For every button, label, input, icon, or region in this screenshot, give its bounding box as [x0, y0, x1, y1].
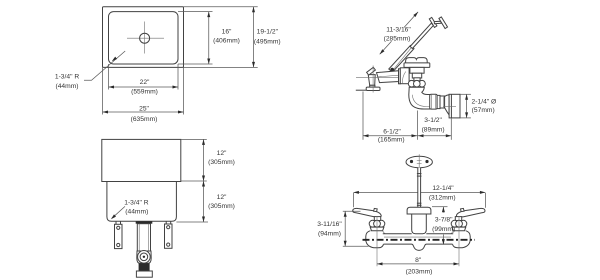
svg-text:(285mm): (285mm): [384, 36, 411, 43]
svg-text:(406mm): (406mm): [213, 38, 240, 45]
svg-text:(495mm): (495mm): [254, 38, 281, 45]
19-1/2 dimension line: [253, 7, 255, 68]
8 inch dim line: [377, 263, 459, 265]
faucet side: wall flange: [449, 94, 460, 118]
svg-text:16": 16": [222, 29, 232, 36]
svg-text:8": 8": [415, 257, 422, 264]
radius leader line plan: [84, 51, 125, 80]
faucet side: coupling balls: [408, 80, 415, 87]
16 inch dimension line: [208, 12, 210, 64]
left leg tab: [115, 221, 117, 224]
faucet front: right neck: [452, 227, 466, 231]
faucet front: inlet centerline dark dashes: [363, 239, 476, 241]
faucet front: right bell: [453, 231, 471, 248]
12 inch dim line lower: [203, 181, 205, 222]
16 inch extension lines: [178, 11, 213, 13]
drain pipe: [137, 224, 150, 251]
6-1/2 and 3-1/2 extension lines: [362, 92, 364, 140]
svg-text:(44mm): (44mm): [125, 209, 148, 216]
faucet side: step piece: [440, 96, 445, 108]
3-11/16 dim line: [344, 211, 346, 246]
3-7/8 dim line: [442, 207, 444, 213]
faucet front: left bell: [366, 231, 384, 248]
svg-text:(305mm): (305mm): [208, 203, 235, 210]
svg-text:(635mm): (635mm): [131, 116, 158, 123]
svg-text:(203mm): (203mm): [406, 268, 433, 275]
25 inch dimension line: [103, 111, 184, 113]
svg-text:(305mm): (305mm): [208, 159, 235, 166]
faucet side: spray head neck: [370, 85, 375, 87]
faucet side: knob bar 1: [429, 17, 437, 27]
right leg tab: [165, 221, 167, 224]
faucet side: body left block: [400, 68, 409, 84]
svg-text:(559mm): (559mm): [131, 88, 158, 95]
faucet front: right handle nub: [461, 208, 465, 211]
faucet front: oval handle: [406, 156, 432, 167]
sink plan view bowl: [109, 12, 179, 64]
faucet side: spray head body: [368, 75, 375, 86]
12-1/4 extension lines: [352, 193, 354, 207]
faucet front: bracket mid line: [384, 236, 451, 238]
3-1/2 dim line: [418, 135, 452, 137]
faucet front: left neck: [370, 227, 384, 231]
faucet side: body square: [412, 73, 421, 78]
trap circles: [138, 250, 151, 263]
faucet front: center bonnet cap: [407, 207, 431, 214]
svg-text:6-1/2": 6-1/2": [383, 128, 401, 135]
faucet side: body flange: [404, 63, 430, 68]
drain lower black fitting: [139, 263, 150, 271]
svg-text:25": 25": [139, 106, 149, 113]
right leg: [165, 224, 173, 248]
faucet side: 11-3/16 dim line: [380, 41, 392, 54]
faucet side: pail hook: [367, 67, 376, 75]
faucet side: bell and elbow: [409, 87, 430, 109]
svg-text:19-1/2": 19-1/2": [257, 29, 279, 36]
drain hole circle: [140, 33, 150, 43]
faucet side: body neck: [410, 67, 424, 73]
faucet side: knob bar 2: [439, 17, 448, 29]
spray head base tick: [356, 89, 366, 91]
faucet front: right bonnet balls: [460, 220, 467, 227]
faucet side: spout joint ring: [399, 69, 401, 84]
svg-text:(89mm): (89mm): [422, 126, 445, 133]
faucet side: handle pivot: [390, 68, 394, 72]
faucet side: square-to-balls connector: [414, 78, 420, 81]
22 inch extension lines: [108, 64, 110, 90]
25 inch extension lines: [102, 67, 104, 114]
drain crosshair horizontal: [127, 37, 164, 39]
faucet side: knob stem: [434, 21, 441, 24]
2-1/4 dim line: [466, 94, 468, 118]
12 inch dim line upper: [203, 139, 205, 181]
faucet front: left handle nub: [374, 208, 378, 211]
svg-text:1-3/4" R: 1-3/4" R: [55, 74, 79, 81]
faucet front: left handle blade: [353, 208, 381, 217]
svg-text:(99mm): (99mm): [432, 226, 455, 233]
faucet side: body cap: [406, 58, 428, 63]
svg-text:12-1/4": 12-1/4": [432, 185, 454, 192]
svg-text:(94mm): (94mm): [318, 231, 341, 238]
svg-text:3-7/8": 3-7/8": [435, 216, 453, 223]
19-1/2 extension lines: [184, 6, 258, 8]
svg-text:(312mm): (312mm): [429, 195, 456, 202]
faucet front: center body: [412, 214, 427, 234]
svg-text:3-1/2": 3-1/2": [424, 117, 442, 124]
drain bottom cap: [136, 271, 152, 277]
3-11/16 extension lines: [343, 210, 361, 212]
faucet side: handle lower shaft: [389, 45, 414, 72]
radius leader front view: [112, 206, 125, 218]
faucet side: flat piece: [437, 95, 440, 108]
6-1/2 dim line: [363, 135, 418, 137]
faucet side: handle upper shaft: [410, 23, 433, 48]
2-1/4 extension lines: [460, 93, 471, 95]
left leg: [115, 224, 123, 248]
faucet front: bridge bottom and center bump: [384, 244, 453, 250]
sink front view bowl: [107, 182, 176, 222]
drain gasket black band: [136, 221, 153, 223]
sink front view cabinet: [102, 139, 181, 181]
svg-text:22": 22": [140, 79, 150, 86]
radius leader arrowhead plan: [112, 57, 117, 62]
svg-text:3-11/16": 3-11/16": [317, 221, 342, 228]
faucet side: wall bell cone: [445, 95, 450, 115]
12 inch extension lines: [181, 138, 207, 140]
faucet front: supply centerline left: [376, 217, 378, 267]
svg-text:(57mm): (57mm): [472, 107, 495, 114]
12-1/4 dim line: [353, 191, 485, 193]
svg-text:12": 12": [217, 150, 227, 157]
svg-text:1-3/4" R: 1-3/4" R: [124, 200, 148, 207]
faucet front: left stem: [374, 217, 380, 221]
svg-text:(44mm): (44mm): [55, 83, 78, 90]
sink plan view outer rim: [103, 7, 184, 68]
3-7/8 extension line: [432, 206, 448, 208]
svg-text:(165mm): (165mm): [378, 137, 405, 144]
faucet side: spout tube: [377, 71, 399, 83]
faucet side: spray head foot cap: [366, 87, 380, 90]
drain crosshair vertical: [144, 22, 146, 54]
svg-text:11-3/16": 11-3/16": [386, 27, 411, 34]
svg-text:12": 12": [217, 194, 227, 201]
faucet front: riser stem: [418, 168, 421, 208]
faucet side: coupling barrel: [430, 94, 437, 109]
svg-text:2-1/4" Ø: 2-1/4" Ø: [472, 99, 497, 106]
faucet front: left bonnet balls: [369, 220, 376, 227]
faucet front: supply centerline right: [458, 217, 460, 267]
faucet front: right stem: [455, 217, 461, 221]
faucet side: spout centerline: [356, 77, 408, 79]
faucet front: right handle blade: [457, 208, 485, 217]
faucet front: bracket top edges: [383, 233, 412, 235]
22 inch dimension line: [109, 86, 179, 88]
trap housing: [137, 251, 151, 263]
